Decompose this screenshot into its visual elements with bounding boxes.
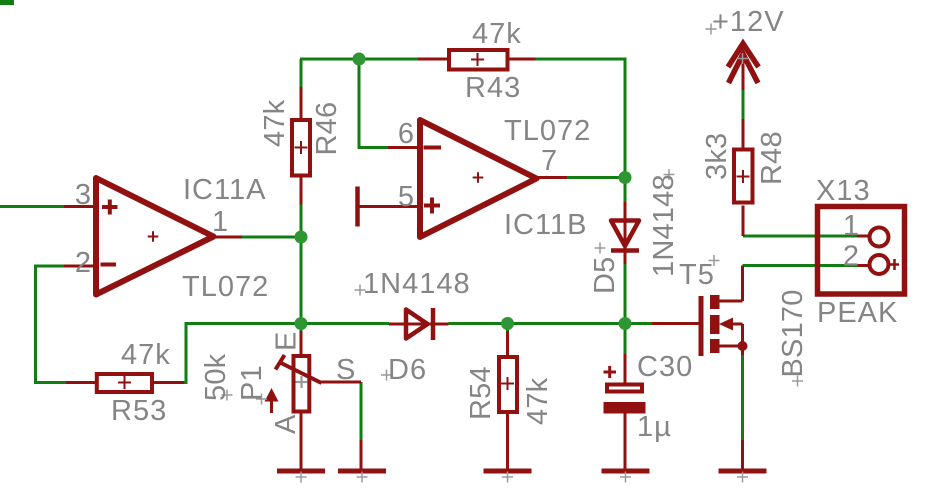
svg-text:PEAK: PEAK <box>817 297 898 329</box>
svg-text:47k: 47k <box>472 18 522 50</box>
svg-text:R46: R46 <box>311 102 343 156</box>
svg-text:3: 3 <box>75 179 92 211</box>
svg-text:+12V: +12V <box>712 6 785 38</box>
svg-text:X13: X13 <box>816 175 871 207</box>
svg-text:50k: 50k <box>200 353 232 401</box>
svg-text:5: 5 <box>398 181 415 213</box>
svg-text:2: 2 <box>75 247 92 279</box>
svg-text:A: A <box>270 414 302 434</box>
svg-text:1N4148: 1N4148 <box>363 268 471 300</box>
svg-text:1N4148: 1N4148 <box>648 174 680 277</box>
svg-text:TL072: TL072 <box>182 271 269 303</box>
svg-text:3k3: 3k3 <box>701 133 733 180</box>
svg-text:BS170: BS170 <box>777 289 809 377</box>
svg-text:47k: 47k <box>259 99 291 147</box>
svg-text:T5: T5 <box>679 259 715 291</box>
svg-text:6: 6 <box>398 118 415 150</box>
svg-text:R53: R53 <box>111 395 167 427</box>
svg-text:D5: D5 <box>589 257 621 294</box>
svg-text:R48: R48 <box>756 131 788 185</box>
svg-text:S: S <box>336 354 356 386</box>
svg-text:7: 7 <box>541 145 558 177</box>
svg-text:47k: 47k <box>522 377 554 425</box>
svg-text:C30: C30 <box>637 351 693 383</box>
svg-text:P1: P1 <box>236 365 268 401</box>
svg-text:IC11B: IC11B <box>504 209 587 241</box>
svg-text:47k: 47k <box>121 339 171 371</box>
svg-text:1: 1 <box>212 206 229 238</box>
svg-text:2: 2 <box>843 241 860 273</box>
svg-text:R54: R54 <box>465 366 497 420</box>
svg-text:TL072: TL072 <box>504 115 591 147</box>
svg-text:E: E <box>271 331 303 351</box>
svg-text:R43: R43 <box>465 72 521 104</box>
svg-text:D6: D6 <box>388 354 427 386</box>
svg-text:1µ: 1µ <box>637 411 672 443</box>
svg-text:IC11A: IC11A <box>183 174 266 206</box>
svg-text:1: 1 <box>843 210 860 242</box>
